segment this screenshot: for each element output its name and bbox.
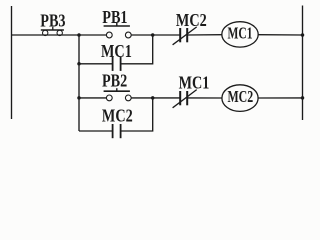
pushbutton PB1 (NO) (104, 23, 132, 38)
wire coil MC2 to right rail (258, 97, 303, 99)
wire MC1 contact to coil MC2 (187, 97, 222, 99)
svg-text:PB3: PB3 (40, 11, 65, 31)
svg-text:MC1: MC1 (101, 42, 132, 62)
coil MC1 (222, 22, 258, 47)
left power rail (11, 6, 13, 119)
contact MC1 aux (NO) (113, 57, 121, 71)
wire PB2 to node F (131, 97, 152, 99)
svg-text:MC2: MC2 (176, 11, 207, 31)
node junction dot A (79,35) (77, 33, 81, 37)
wire MC2 contact to coil MC1 (187, 34, 222, 36)
wire rung2 to PB2 (79, 97, 106, 99)
node junction dot F (152.7,97.9) (151, 96, 155, 100)
svg-text:MC2: MC2 (102, 106, 133, 126)
wire coil MC1 to right rail (258, 34, 303, 36)
node junction dot B (152.7,35) (151, 33, 155, 37)
pushbutton PB3 (NC) (41, 27, 64, 36)
wire MC1 aux rung left (79, 63, 113, 65)
wire rung1 left segment (12, 34, 80, 36)
wire rung1 to PB1 (79, 34, 106, 36)
wire rung1 node B to MC2 contact (153, 34, 181, 36)
svg-text:MC1: MC1 (227, 24, 252, 43)
node junction dot C (79,63.8) (77, 62, 81, 66)
svg-text:MC1: MC1 (179, 73, 210, 93)
contact MC2 (NC) (173, 27, 197, 45)
svg-text:PB2: PB2 (102, 71, 127, 91)
contact MC2 aux (NO) (113, 124, 121, 138)
svg-text:MC2: MC2 (227, 88, 253, 106)
wire loop1 right vertical (121, 35, 153, 64)
wire MC2 aux rung left (79, 130, 113, 132)
coil MC2 (222, 85, 258, 112)
wire loop2 right vertical (121, 98, 153, 131)
right power rail (302, 6, 304, 121)
pushbutton PB2 (NO) (104, 88, 132, 101)
contact MC1 (NC) (173, 90, 197, 108)
node junction dot D (302.5,35) (301, 33, 305, 37)
wire PB1 to node B (131, 34, 152, 36)
wire rung2 node F to MC1 contact (153, 97, 181, 99)
node junction dot E (79,97.9) (77, 96, 81, 100)
svg-text:PB1: PB1 (102, 7, 127, 27)
wire left branch vertical (78, 35, 80, 131)
node junction dot G (302.5,97.9) (301, 96, 305, 100)
